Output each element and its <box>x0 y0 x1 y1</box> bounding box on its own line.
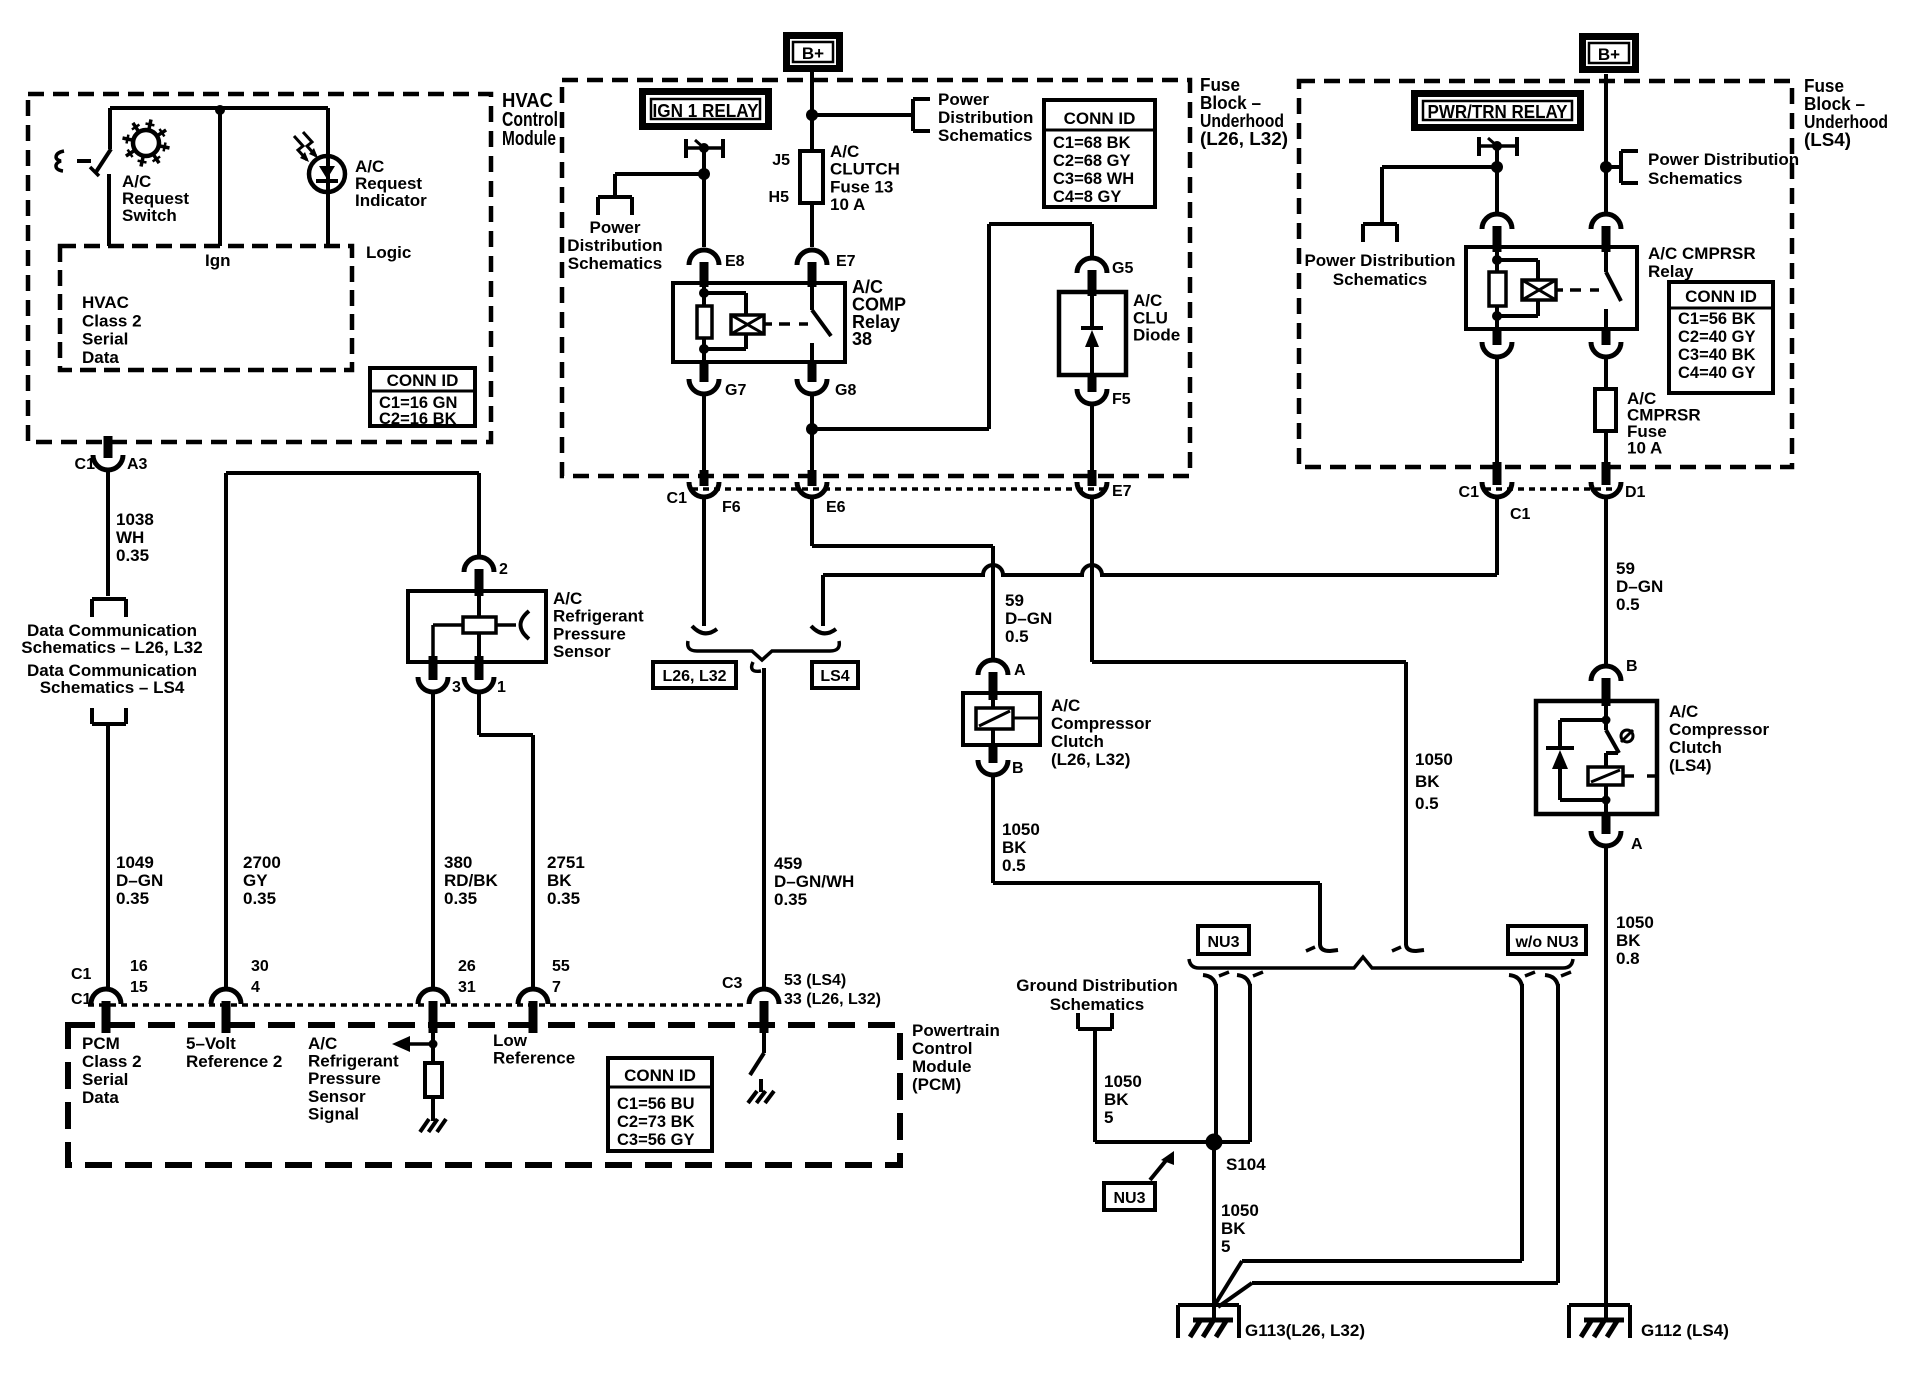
svg-text:C2=16 BK: C2=16 BK <box>379 410 457 428</box>
svg-text:C1: C1 <box>1510 506 1531 523</box>
svg-text:C4=40 GY: C4=40 GY <box>1678 364 1756 382</box>
svg-text:3: 3 <box>452 679 461 696</box>
svg-text:C1: C1 <box>1459 484 1480 501</box>
svg-text:Module: Module <box>912 1057 972 1076</box>
svg-text:Data: Data <box>82 1088 119 1107</box>
svg-text:Sensor: Sensor <box>308 1087 366 1106</box>
svg-text:Underhood: Underhood <box>1804 112 1888 132</box>
svg-text:(L26, L32): (L26, L32) <box>1051 750 1130 769</box>
svg-text:BK: BK <box>1221 1219 1246 1238</box>
svg-text:Compressor: Compressor <box>1669 720 1770 739</box>
svg-text:A/C: A/C <box>1133 291 1162 310</box>
svg-text:C3=68 WH: C3=68 WH <box>1053 170 1134 188</box>
svg-text:Fuse: Fuse <box>1200 75 1240 95</box>
svg-text:Powertrain: Powertrain <box>912 1021 1000 1040</box>
svg-text:C1: C1 <box>75 456 96 473</box>
svg-text:Schematics: Schematics <box>938 126 1033 145</box>
svg-text:31: 31 <box>458 979 476 996</box>
svg-text:B+: B+ <box>802 44 824 63</box>
svg-text:0.5: 0.5 <box>1005 627 1029 646</box>
svg-text:Serial: Serial <box>82 330 128 349</box>
svg-text:5: 5 <box>1104 1108 1113 1127</box>
svg-text:Clutch: Clutch <box>1669 738 1722 757</box>
svg-text:Data: Data <box>82 348 119 367</box>
svg-text:0.5: 0.5 <box>1002 856 1026 875</box>
svg-text:(L26, L32): (L26, L32) <box>1200 129 1288 149</box>
svg-text:Indicator: Indicator <box>355 191 427 210</box>
svg-text:Power: Power <box>938 90 989 109</box>
svg-text:Ign: Ign <box>205 251 231 270</box>
svg-text:0.35: 0.35 <box>116 889 149 908</box>
svg-text:BK: BK <box>1415 772 1440 791</box>
svg-text:IGN 1 RELAY: IGN 1 RELAY <box>653 101 759 121</box>
svg-text:C2=68 GY: C2=68 GY <box>1053 152 1131 170</box>
svg-text:30: 30 <box>251 958 269 975</box>
svg-text:D–GN: D–GN <box>116 871 163 890</box>
svg-text:Serial: Serial <box>82 1070 128 1089</box>
svg-text:C2=73 BK: C2=73 BK <box>617 1113 695 1131</box>
svg-text:A/C: A/C <box>308 1034 337 1053</box>
svg-text:Pressure: Pressure <box>553 624 626 643</box>
svg-text:C1: C1 <box>71 991 92 1008</box>
svg-text:CLU: CLU <box>1133 308 1168 327</box>
svg-text:C1=68 BK: C1=68 BK <box>1053 134 1131 152</box>
svg-text:CLUTCH: CLUTCH <box>830 160 900 179</box>
svg-text:NU3: NU3 <box>1113 1190 1145 1207</box>
svg-text:C1: C1 <box>71 966 92 983</box>
svg-text:Signal: Signal <box>308 1104 359 1123</box>
svg-text:1050: 1050 <box>1616 913 1654 932</box>
svg-text:Fuse: Fuse <box>1804 76 1844 96</box>
svg-text:A: A <box>1631 836 1643 853</box>
svg-text:BK: BK <box>1104 1090 1129 1109</box>
svg-text:C1=56 BK: C1=56 BK <box>1678 310 1756 328</box>
svg-text:1050: 1050 <box>1104 1072 1142 1091</box>
svg-text:C2=40 GY: C2=40 GY <box>1678 328 1756 346</box>
svg-text:G8: G8 <box>835 382 856 399</box>
svg-text:Fuse 13: Fuse 13 <box>830 177 893 196</box>
svg-text:F6: F6 <box>722 499 741 516</box>
svg-text:0.35: 0.35 <box>774 890 807 909</box>
svg-text:38: 38 <box>852 329 872 349</box>
svg-text:Schematics: Schematics <box>1050 995 1145 1014</box>
svg-text:G112 (LS4): G112 (LS4) <box>1641 1321 1729 1340</box>
svg-text:2751: 2751 <box>547 853 585 872</box>
svg-text:55: 55 <box>552 958 570 975</box>
svg-text:E7: E7 <box>836 253 856 270</box>
svg-text:1050: 1050 <box>1221 1201 1259 1220</box>
svg-text:G113(L26, L32): G113(L26, L32) <box>1245 1321 1365 1340</box>
svg-text:Power: Power <box>589 218 640 237</box>
svg-text:CONN ID: CONN ID <box>1685 287 1757 306</box>
svg-text:0.35: 0.35 <box>547 889 580 908</box>
svg-text:0.5: 0.5 <box>1415 794 1439 813</box>
svg-text:C3=56 GY: C3=56 GY <box>617 1131 695 1149</box>
svg-text:0.35: 0.35 <box>444 889 477 908</box>
svg-text:RD/BK: RD/BK <box>444 871 499 890</box>
svg-text:A/C CMPRSR: A/C CMPRSR <box>1648 244 1756 263</box>
svg-text:L26, L32: L26, L32 <box>662 668 726 685</box>
svg-text:CONN ID: CONN ID <box>387 371 459 390</box>
svg-text:BK: BK <box>1002 838 1027 857</box>
svg-text:PWR/TRN RELAY: PWR/TRN RELAY <box>1428 102 1568 122</box>
svg-text:J5: J5 <box>772 152 790 169</box>
svg-text:F5: F5 <box>1112 391 1131 408</box>
svg-text:LS4: LS4 <box>820 668 849 685</box>
svg-text:A/C: A/C <box>1669 702 1698 721</box>
svg-text:A/C: A/C <box>553 589 582 608</box>
svg-text:1050: 1050 <box>1415 750 1453 769</box>
svg-text:1049: 1049 <box>116 853 154 872</box>
svg-text:w/o NU3: w/o NU3 <box>1514 934 1578 951</box>
svg-text:D–GN: D–GN <box>1005 609 1052 628</box>
svg-text:BK: BK <box>547 871 572 890</box>
svg-text:380: 380 <box>444 853 472 872</box>
svg-text:Reference: Reference <box>493 1049 575 1068</box>
svg-text:16: 16 <box>130 958 148 975</box>
svg-text:C1: C1 <box>667 490 688 507</box>
svg-text:D–GN: D–GN <box>1616 577 1663 596</box>
svg-text:Schematics: Schematics <box>568 254 663 273</box>
svg-text:1: 1 <box>497 679 506 696</box>
svg-text:BK: BK <box>1616 931 1641 950</box>
svg-text:A/C: A/C <box>830 142 859 161</box>
svg-text:Schematics – L26, L32: Schematics – L26, L32 <box>21 638 202 657</box>
svg-text:Logic: Logic <box>366 243 411 262</box>
svg-text:G7: G7 <box>725 382 746 399</box>
svg-text:NU3: NU3 <box>1207 934 1239 951</box>
svg-text:Compressor: Compressor <box>1051 714 1152 733</box>
svg-text:(LS4): (LS4) <box>1804 130 1851 150</box>
svg-text:B: B <box>1626 658 1638 675</box>
svg-text:A3: A3 <box>127 456 148 473</box>
svg-text:E8: E8 <box>725 253 745 270</box>
svg-text:0.35: 0.35 <box>116 546 149 565</box>
svg-text:53 (LS4): 53 (LS4) <box>784 972 846 989</box>
svg-text:Control: Control <box>912 1039 972 1058</box>
svg-text:C3: C3 <box>722 975 743 992</box>
svg-text:Schematics: Schematics <box>1648 169 1743 188</box>
svg-text:Module: Module <box>502 128 556 150</box>
svg-text:10 A: 10 A <box>830 195 865 214</box>
svg-text:2700: 2700 <box>243 853 281 872</box>
svg-text:(PCM): (PCM) <box>912 1075 961 1094</box>
svg-text:WH: WH <box>116 528 144 547</box>
svg-text:Schematics: Schematics <box>1333 270 1428 289</box>
svg-text:Refrigerant: Refrigerant <box>553 607 644 626</box>
svg-text:0.8: 0.8 <box>1616 949 1640 968</box>
svg-text:1038: 1038 <box>116 510 154 529</box>
svg-text:Schematics – LS4: Schematics – LS4 <box>40 678 185 697</box>
svg-text:Distribution: Distribution <box>938 108 1033 127</box>
svg-text:Diode: Diode <box>1133 326 1180 345</box>
svg-text:Distribution: Distribution <box>567 236 662 255</box>
svg-text:0.35: 0.35 <box>243 889 276 908</box>
svg-text:Switch: Switch <box>122 206 177 225</box>
svg-text:B+: B+ <box>1598 45 1620 64</box>
svg-text:59: 59 <box>1005 591 1024 610</box>
svg-text:Low: Low <box>493 1031 528 1050</box>
svg-text:A: A <box>1014 662 1026 679</box>
svg-text:459: 459 <box>774 854 802 873</box>
svg-text:HVAC: HVAC <box>82 293 129 312</box>
svg-text:E6: E6 <box>826 499 846 516</box>
svg-text:Clutch: Clutch <box>1051 732 1104 751</box>
svg-text:S104: S104 <box>1226 1155 1266 1174</box>
svg-text:CONN ID: CONN ID <box>1064 109 1136 128</box>
svg-text:GY: GY <box>243 871 268 890</box>
svg-text:10 A: 10 A <box>1627 439 1662 458</box>
svg-text:A/C: A/C <box>1051 696 1080 715</box>
svg-text:Underhood: Underhood <box>1200 111 1284 131</box>
svg-text:C4=8 GY: C4=8 GY <box>1053 188 1121 206</box>
svg-text:Reference 2: Reference 2 <box>186 1052 282 1071</box>
svg-text:5–Volt: 5–Volt <box>186 1034 236 1053</box>
svg-text:B: B <box>1012 760 1024 777</box>
svg-text:C1=56 BU: C1=56 BU <box>617 1095 695 1113</box>
svg-text:7: 7 <box>552 979 561 996</box>
svg-text:Class 2: Class 2 <box>82 311 142 330</box>
svg-text:4: 4 <box>251 979 260 996</box>
svg-text:D–GN/WH: D–GN/WH <box>774 872 854 891</box>
svg-text:33 (L26, L32): 33 (L26, L32) <box>784 991 881 1008</box>
svg-text:5: 5 <box>1221 1237 1230 1256</box>
svg-text:(LS4): (LS4) <box>1669 756 1712 775</box>
svg-text:Class 2: Class 2 <box>82 1052 142 1071</box>
svg-text:Power Distribution: Power Distribution <box>1304 251 1455 270</box>
svg-text:15: 15 <box>130 979 148 996</box>
svg-text:Pressure: Pressure <box>308 1069 381 1088</box>
svg-text:Refrigerant: Refrigerant <box>308 1052 399 1071</box>
svg-text:Block –: Block – <box>1200 93 1261 113</box>
svg-text:0.5: 0.5 <box>1616 595 1640 614</box>
svg-text:CONN ID: CONN ID <box>624 1066 696 1085</box>
svg-text:59: 59 <box>1616 559 1635 578</box>
svg-text:PCM: PCM <box>82 1034 120 1053</box>
svg-text:Sensor: Sensor <box>553 642 611 661</box>
svg-text:1050: 1050 <box>1002 820 1040 839</box>
svg-text:C3=40 BK: C3=40 BK <box>1678 346 1756 364</box>
svg-text:E7: E7 <box>1112 483 1132 500</box>
svg-text:Block –: Block – <box>1804 94 1865 114</box>
svg-text:26: 26 <box>458 958 476 975</box>
svg-text:2: 2 <box>499 561 508 578</box>
svg-text:D1: D1 <box>1625 484 1646 501</box>
svg-text:Relay: Relay <box>1648 262 1694 281</box>
svg-text:G5: G5 <box>1112 260 1133 277</box>
svg-text:Ground Distribution: Ground Distribution <box>1016 976 1177 995</box>
svg-text:Power Distribution: Power Distribution <box>1648 150 1799 169</box>
svg-text:H5: H5 <box>769 189 790 206</box>
